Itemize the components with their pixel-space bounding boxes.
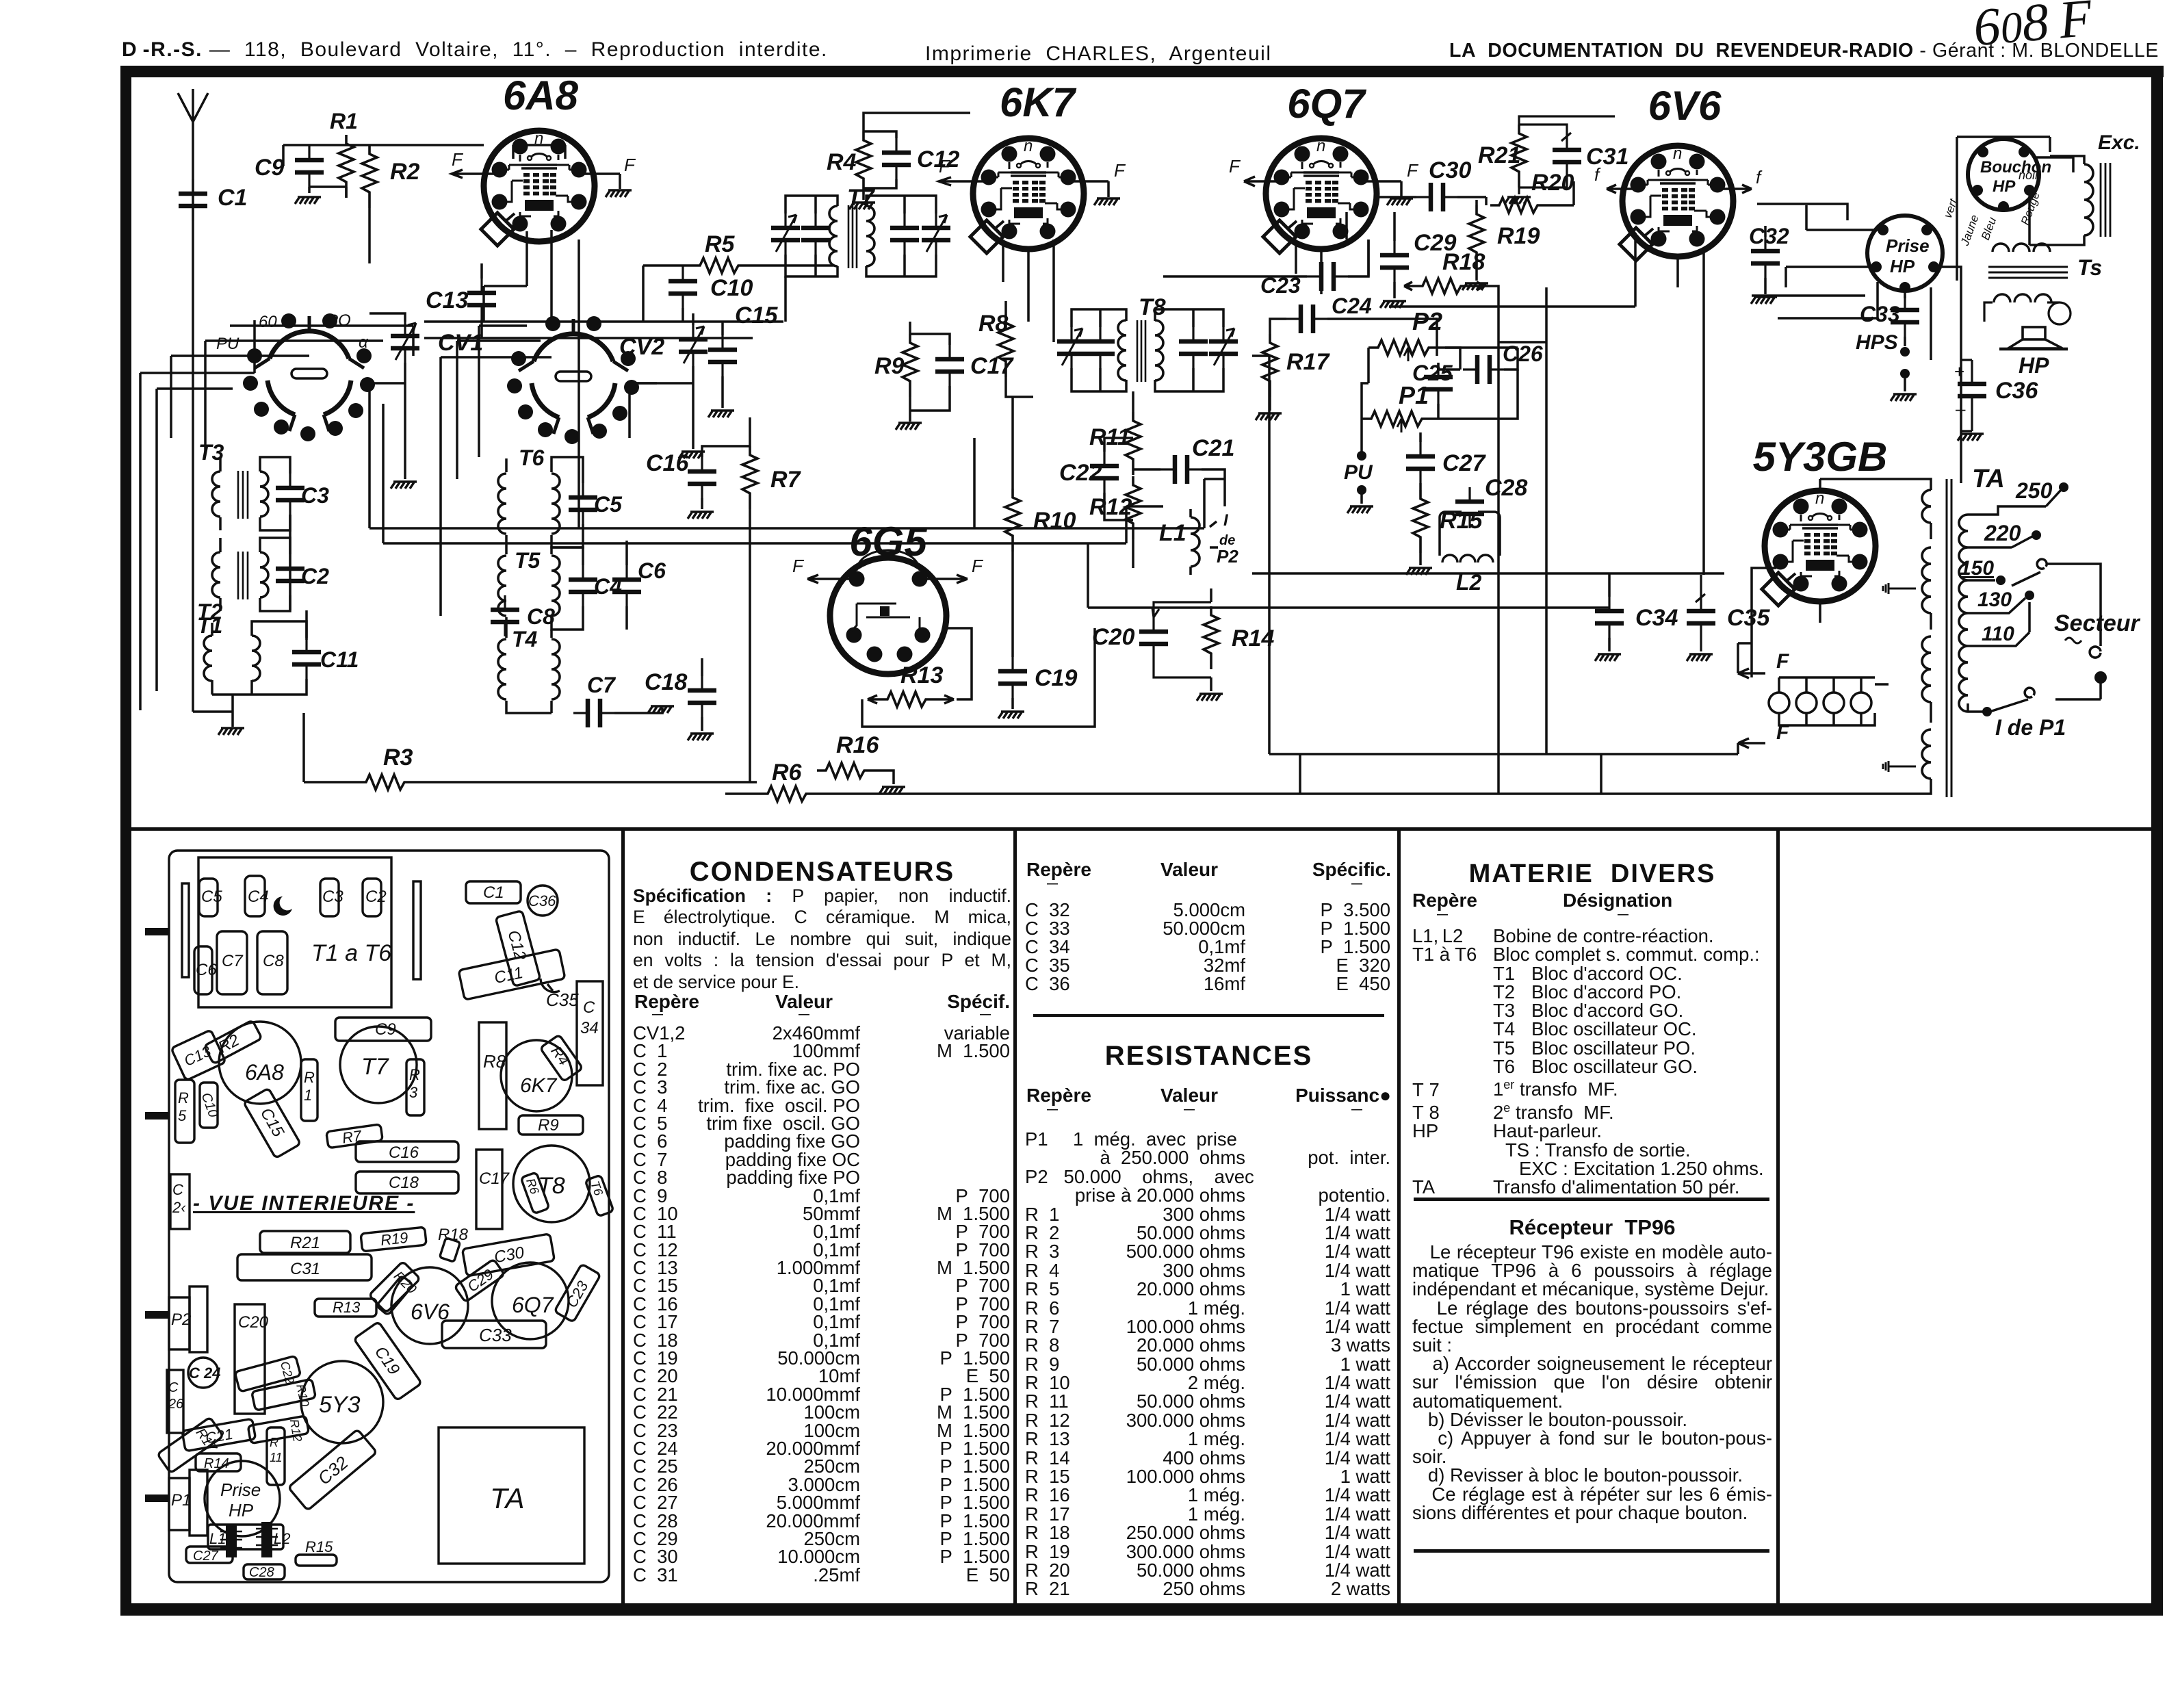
- svg-text:C20: C20: [238, 1313, 269, 1332]
- svg-text:6Q7: 6Q7: [1287, 81, 1366, 127]
- svg-text:C17: C17: [479, 1169, 510, 1188]
- svg-text:P1: P1: [171, 1491, 191, 1510]
- svg-text:R12: R12: [287, 1418, 304, 1442]
- svg-text:C27: C27: [193, 1549, 219, 1564]
- svg-text:C35: C35: [1727, 605, 1770, 631]
- svg-text:Bleu: Bleu: [1979, 215, 1999, 242]
- svg-text:- VUE INTERIEURE -: - VUE INTERIEURE -: [193, 1192, 415, 1215]
- svg-text:R19: R19: [1497, 223, 1540, 249]
- svg-text:C15: C15: [735, 302, 778, 328]
- svg-text:C7: C7: [222, 952, 244, 970]
- svg-text:T8: T8: [1139, 294, 1166, 320]
- svg-text:C36: C36: [528, 892, 556, 909]
- svg-text:C18: C18: [389, 1174, 419, 1192]
- svg-text:6Q7: 6Q7: [512, 1293, 554, 1317]
- svg-text:+: +: [1954, 361, 1964, 382]
- svg-text:C11: C11: [320, 647, 359, 672]
- svg-text:R14: R14: [1232, 625, 1274, 651]
- svg-text:220: 220: [1984, 521, 2021, 545]
- svg-text:TA: TA: [490, 1482, 525, 1514]
- svg-text:R2: R2: [390, 159, 420, 185]
- svg-text:C9: C9: [255, 155, 285, 181]
- svg-text:C24: C24: [1332, 294, 1372, 318]
- svg-text:C8: C8: [527, 604, 555, 629]
- svg-text:6V6: 6V6: [1648, 83, 1722, 129]
- svg-text:6K7: 6K7: [520, 1074, 558, 1097]
- svg-text:C33: C33: [1860, 302, 1900, 326]
- svg-text:C5: C5: [594, 492, 623, 517]
- svg-text:PU: PU: [216, 335, 239, 353]
- svg-text:C16: C16: [389, 1143, 419, 1162]
- svg-text:Prise: Prise: [1886, 235, 1930, 256]
- svg-text:R3: R3: [383, 745, 413, 771]
- svg-text:C13: C13: [426, 287, 468, 313]
- svg-text:C16: C16: [646, 450, 689, 476]
- svg-text:R: R: [270, 1436, 278, 1449]
- svg-text:R5: R5: [705, 231, 736, 257]
- svg-text:R: R: [409, 1066, 420, 1083]
- svg-text:11: 11: [270, 1451, 283, 1464]
- svg-text:C32: C32: [314, 1452, 352, 1489]
- svg-text:T4: T4: [512, 627, 538, 651]
- svg-text:R9: R9: [538, 1116, 559, 1135]
- svg-text:R18: R18: [1442, 249, 1485, 275]
- svg-text:R7: R7: [341, 1127, 363, 1147]
- svg-text:HP: HP: [1890, 256, 1915, 276]
- svg-text:C33: C33: [479, 1325, 512, 1345]
- svg-text:R13: R13: [900, 662, 943, 688]
- svg-text:T1 а T6: T1 а T6: [311, 940, 391, 966]
- svg-text:HP: HP: [2019, 353, 2049, 378]
- svg-text:C19: C19: [1035, 665, 1077, 691]
- svg-text:C26: C26: [1503, 341, 1543, 366]
- svg-text:C17: C17: [970, 353, 1014, 379]
- svg-text:T1: T1: [197, 613, 222, 638]
- svg-text:F: F: [939, 156, 951, 177]
- svg-text:C21: C21: [1192, 435, 1234, 461]
- svg-text:C20: C20: [1092, 624, 1134, 650]
- svg-text:T3: T3: [198, 440, 224, 465]
- svg-text:P2: P2: [1217, 546, 1238, 567]
- svg-text:–: –: [1956, 398, 1966, 419]
- svg-text:R7: R7: [770, 467, 802, 493]
- svg-text:R19: R19: [380, 1229, 409, 1249]
- svg-text:C1: C1: [483, 883, 504, 902]
- svg-text:R12: R12: [1089, 494, 1132, 520]
- svg-text:C: C: [168, 1380, 179, 1395]
- svg-text:C2: C2: [301, 564, 329, 588]
- svg-text:C6: C6: [638, 558, 666, 583]
- svg-text:C4: C4: [248, 888, 269, 906]
- svg-text:1: 1: [304, 1087, 312, 1104]
- svg-text:F: F: [1776, 650, 1789, 673]
- svg-text:C3: C3: [301, 483, 329, 508]
- svg-text:C8: C8: [263, 952, 284, 970]
- svg-text:I de P1: I de P1: [1995, 715, 2066, 740]
- svg-text:P1: P1: [1399, 381, 1429, 409]
- svg-text:C31: C31: [1586, 144, 1628, 170]
- svg-text:L1: L1: [209, 1530, 226, 1547]
- svg-text:5Y3GB: 5Y3GB: [1753, 434, 1888, 480]
- svg-text:250: 250: [2015, 478, 2053, 503]
- svg-text:C31: C31: [290, 1260, 320, 1278]
- svg-text:C34: C34: [1635, 605, 1678, 631]
- svg-text:R: R: [304, 1069, 315, 1086]
- svg-text:C28: C28: [249, 1565, 274, 1580]
- svg-text:6K7: 6K7: [1000, 79, 1077, 125]
- svg-text:R13: R13: [333, 1299, 361, 1316]
- svg-text:TA: TA: [1972, 465, 2005, 493]
- svg-text:PO: PO: [327, 311, 351, 330]
- svg-text:R: R: [178, 1089, 189, 1107]
- svg-text:R17: R17: [1286, 349, 1330, 375]
- svg-text:C: C: [583, 998, 595, 1017]
- svg-text:C10: C10: [710, 275, 753, 301]
- svg-text:5Y3: 5Y3: [319, 1392, 361, 1418]
- svg-text:C22: C22: [1059, 460, 1102, 486]
- svg-text:R1: R1: [330, 109, 358, 133]
- svg-text:T7: T7: [361, 1054, 389, 1080]
- svg-text:R21: R21: [1478, 142, 1520, 168]
- svg-text:F: F: [1407, 160, 1419, 181]
- svg-text:26: 26: [168, 1397, 184, 1412]
- svg-text:110: 110: [1982, 623, 2014, 645]
- svg-text:R8: R8: [978, 311, 1009, 337]
- svg-text:Ts: Ts: [2077, 255, 2102, 280]
- svg-text:C30: C30: [1429, 157, 1471, 183]
- svg-text:R10: R10: [1033, 508, 1076, 534]
- svg-text:Bouchon: Bouchon: [1980, 158, 2051, 177]
- svg-text:6A8: 6A8: [503, 73, 579, 118]
- svg-text:Exc.: Exc.: [2098, 131, 2140, 154]
- svg-text:F: F: [452, 149, 464, 170]
- svg-text:Secteur: Secteur: [2054, 610, 2140, 636]
- svg-text:C28: C28: [1485, 475, 1527, 501]
- svg-text:F: F: [972, 556, 984, 576]
- svg-text:C32: C32: [1749, 224, 1789, 248]
- svg-text:P2: P2: [1412, 307, 1442, 335]
- svg-text:F: F: [624, 155, 636, 175]
- svg-text:C18: C18: [645, 669, 687, 695]
- svg-text:Jaune: Jaune: [1958, 213, 1982, 248]
- svg-text:C6: C6: [196, 961, 217, 979]
- svg-text:R6: R6: [772, 760, 803, 786]
- svg-text:C2: C2: [365, 888, 387, 906]
- svg-text:C1: C1: [218, 185, 247, 211]
- svg-text:R21: R21: [290, 1234, 320, 1252]
- svg-text:I: I: [1223, 511, 1229, 530]
- svg-text:C9: C9: [375, 1020, 396, 1039]
- svg-text:C7: C7: [587, 673, 617, 697]
- svg-text:PU: PU: [1344, 461, 1373, 484]
- svg-text:C 24: C 24: [189, 1364, 220, 1382]
- svg-text:F: F: [1114, 160, 1126, 181]
- svg-text:F: F: [792, 556, 805, 576]
- svg-text:α: α: [359, 333, 369, 352]
- svg-text:R4: R4: [827, 149, 857, 175]
- svg-text:HP: HP: [1993, 177, 2016, 196]
- svg-text:R16: R16: [836, 732, 879, 758]
- svg-text:C27: C27: [1442, 450, 1486, 476]
- svg-text:HPS: HPS: [1856, 331, 1898, 354]
- svg-text:60: 60: [259, 313, 277, 331]
- svg-text:T6: T6: [519, 445, 545, 470]
- svg-text:C3: C3: [322, 888, 343, 906]
- svg-text:130: 130: [1977, 588, 2012, 611]
- svg-text:34: 34: [580, 1019, 599, 1037]
- svg-text:R9: R9: [874, 353, 905, 379]
- svg-text:6A8: 6A8: [245, 1060, 284, 1085]
- svg-text:L2: L2: [274, 1530, 290, 1547]
- svg-text:HP: HP: [229, 1500, 254, 1521]
- svg-text:CV1: CV1: [438, 330, 483, 356]
- svg-text:150: 150: [1960, 557, 1994, 580]
- svg-text:C36: C36: [1995, 378, 2038, 404]
- svg-text:C5: C5: [201, 888, 222, 906]
- svg-text:3: 3: [409, 1084, 418, 1101]
- svg-text:T5: T5: [515, 548, 541, 573]
- svg-text:2‹: 2‹: [172, 1199, 186, 1216]
- svg-text:R15: R15: [305, 1538, 333, 1555]
- svg-text:C35: C35: [546, 989, 579, 1010]
- svg-text:C: C: [172, 1181, 183, 1198]
- svg-text:L1: L1: [1159, 520, 1186, 546]
- svg-text:f: f: [1756, 167, 1763, 187]
- svg-text:P2: P2: [171, 1310, 191, 1329]
- svg-text:Prise: Prise: [220, 1479, 261, 1500]
- svg-text:F: F: [1776, 721, 1789, 744]
- svg-text:5: 5: [178, 1107, 187, 1124]
- svg-text:F: F: [1229, 156, 1241, 177]
